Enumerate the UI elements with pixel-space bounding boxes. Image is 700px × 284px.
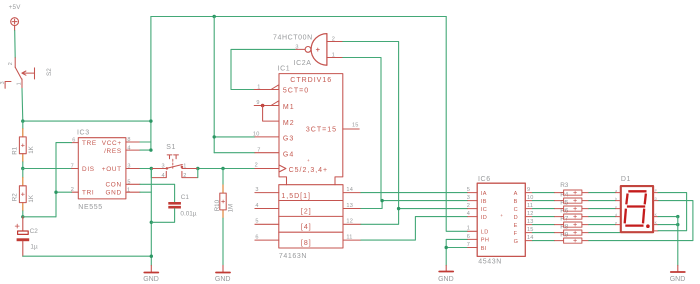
wire G3/G4 vertical bbox=[213, 17, 215, 153]
junction M1/M2 bbox=[261, 104, 265, 108]
IC1 clock triangle bbox=[279, 165, 286, 172]
svg-text:1: 1 bbox=[183, 163, 186, 169]
svg-text:7: 7 bbox=[257, 148, 260, 154]
svg-text:F: F bbox=[514, 231, 518, 237]
IC1 pin 3 bbox=[255, 192, 279, 194]
svg-text:IC3: IC3 bbox=[77, 129, 90, 136]
wire RES pin4 stub bbox=[140, 149, 151, 151]
wire C2 to GND bbox=[23, 255, 152, 257]
svg-text:a: a bbox=[615, 189, 617, 193]
IC1 pin 15 bbox=[343, 128, 359, 130]
svg-text:CON: CON bbox=[105, 182, 121, 189]
IC1 pin 14 bbox=[343, 192, 361, 194]
svg-text:1M: 1M bbox=[227, 204, 234, 213]
IC1 pin 4 bbox=[255, 208, 279, 210]
IC1 pin 6 bbox=[255, 239, 279, 241]
svg-text:1: 1 bbox=[332, 52, 335, 58]
svg-text:C: C bbox=[514, 207, 518, 213]
svg-text:IB: IB bbox=[481, 199, 487, 205]
IC1 pin 5 bbox=[255, 223, 279, 225]
junction S1 right bbox=[196, 167, 199, 170]
junction IB bbox=[380, 199, 383, 202]
svg-text:14: 14 bbox=[346, 187, 353, 193]
svg-text:7: 7 bbox=[71, 163, 74, 169]
wire S2 to node bbox=[21, 88, 24, 121]
svg-text:R2: R2 bbox=[11, 193, 18, 201]
IC1 pin 2 CLK bbox=[255, 168, 279, 170]
svg-text:S1: S1 bbox=[166, 144, 176, 151]
svg-text:G4: G4 bbox=[283, 151, 294, 158]
svg-text:4: 4 bbox=[467, 211, 470, 217]
IC1 pin 7 G4 bbox=[255, 152, 279, 154]
IC1 pin 9 M1 bbox=[254, 105, 279, 107]
svg-text:IC2A: IC2A bbox=[294, 60, 312, 67]
IC1 pin 1 bbox=[254, 89, 279, 91]
svg-text:IC6: IC6 bbox=[478, 176, 491, 183]
svg-text:IA: IA bbox=[481, 191, 487, 197]
switch S1 bbox=[151, 144, 198, 179]
resistor bodies bbox=[564, 190, 582, 243]
D1 seven segment digit bbox=[625, 191, 647, 225]
wire node to VCC vertical bbox=[23, 120, 151, 122]
svg-text:3: 3 bbox=[127, 163, 130, 169]
svg-text:+OUT: +OUT bbox=[102, 166, 122, 173]
svg-text:6: 6 bbox=[255, 234, 258, 240]
wire TRI stub bbox=[56, 191, 72, 193]
wire PH to GND bbox=[446, 239, 468, 265]
svg-text:R10: R10 bbox=[214, 199, 221, 211]
svg-text:A: A bbox=[514, 191, 518, 197]
svg-text:4: 4 bbox=[255, 203, 258, 209]
wire to G4 bbox=[214, 152, 255, 154]
svg-text:6: 6 bbox=[467, 234, 470, 240]
junction K2 bbox=[676, 223, 679, 226]
svg-text:10: 10 bbox=[253, 132, 260, 138]
wire gate output to IC1 pin1 bbox=[231, 49, 295, 89]
IC1 pin 13 bbox=[343, 208, 361, 210]
svg-text:LD: LD bbox=[481, 230, 489, 236]
junction G3 bbox=[213, 135, 216, 138]
svg-text:13: 13 bbox=[346, 203, 353, 209]
svg-text:[8]: [8] bbox=[301, 240, 312, 247]
svg-text:NE555: NE555 bbox=[78, 204, 102, 211]
svg-text:CTRDIV16: CTRDIV16 bbox=[290, 77, 332, 84]
wire display P loop bbox=[658, 193, 687, 231]
svg-text:9: 9 bbox=[256, 100, 259, 106]
svg-text:[4]: [4] bbox=[301, 224, 312, 231]
ground GND2 bbox=[215, 265, 231, 282]
junction TRI bbox=[54, 191, 57, 194]
display D1 bbox=[615, 176, 658, 232]
svg-text:GND: GND bbox=[438, 276, 454, 283]
svg-text:C2: C2 bbox=[30, 228, 39, 235]
svg-text:74HCT00N: 74HCT00N bbox=[273, 34, 313, 41]
svg-text:+: + bbox=[307, 158, 310, 163]
svg-text:BI: BI bbox=[481, 246, 487, 252]
svg-text:D1: D1 bbox=[621, 176, 631, 183]
svg-text:DIS: DIS bbox=[82, 166, 95, 173]
D1 right pins bbox=[654, 193, 658, 231]
wire C1 to GND vertical bbox=[151, 209, 174, 223]
wire CON to C1 bbox=[140, 184, 175, 202]
+5V supply symbol bbox=[9, 4, 22, 31]
resistor pins bbox=[555, 193, 589, 241]
svg-text:G: G bbox=[514, 239, 519, 245]
wire node to IC3 DIS bbox=[23, 168, 72, 170]
svg-text:5CT=0: 5CT=0 bbox=[283, 88, 309, 95]
svg-text:2: 2 bbox=[8, 62, 14, 65]
wire VCC pin8 stub bbox=[140, 141, 151, 143]
IC6 left pins bbox=[468, 193, 478, 248]
top supply rail bbox=[151, 16, 446, 18]
capacitor C1 bbox=[168, 194, 197, 217]
svg-text:3: 3 bbox=[162, 164, 165, 170]
wire Q2 to IB bbox=[361, 201, 468, 209]
svg-text:D: D bbox=[514, 215, 518, 221]
resistor R2 bbox=[11, 169, 34, 211]
nand gate U: IC2A 74HCT00N bbox=[273, 34, 343, 67]
wire gate pin1 to IB row bbox=[343, 58, 381, 201]
svg-text:VCC+: VCC+ bbox=[102, 140, 122, 147]
svg-text:IC: IC bbox=[481, 207, 487, 213]
svg-text:3: 3 bbox=[467, 195, 470, 201]
svg-text:1: 1 bbox=[467, 226, 470, 232]
svg-text:1: 1 bbox=[127, 187, 130, 193]
svg-text:15: 15 bbox=[352, 123, 359, 129]
junction IC bbox=[397, 207, 400, 210]
IC3 pin numbers bbox=[71, 137, 131, 193]
svg-text:GND: GND bbox=[143, 276, 159, 283]
svg-text:GND: GND bbox=[670, 276, 686, 283]
value marks bbox=[574, 191, 577, 242]
svg-text:e: e bbox=[615, 221, 617, 225]
svg-text:4543N: 4543N bbox=[478, 258, 502, 265]
junction top rail bbox=[213, 15, 216, 18]
svg-text:TRE: TRE bbox=[82, 140, 97, 147]
svg-text:R1: R1 bbox=[11, 146, 18, 154]
svg-text:5: 5 bbox=[467, 187, 470, 193]
svg-text:/RES: /RES bbox=[104, 148, 122, 155]
junction RES bbox=[149, 148, 152, 151]
wires resistors to display bbox=[589, 193, 620, 233]
IC1 pin 11 bbox=[343, 239, 361, 241]
wire node to TRI vertical bbox=[23, 216, 56, 218]
svg-text:R3: R3 bbox=[560, 182, 569, 189]
svg-text:PH: PH bbox=[481, 238, 489, 244]
svg-text:[2]: [2] bbox=[301, 208, 312, 215]
svg-text:1: 1 bbox=[257, 84, 260, 90]
svg-text:M1: M1 bbox=[283, 104, 295, 111]
wire +5V to S2 bbox=[14, 31, 17, 58]
capacitor C2 bbox=[15, 217, 38, 256]
D1 left pins bbox=[616, 193, 620, 225]
wire to G3 bbox=[214, 136, 255, 138]
junction OUT bbox=[150, 167, 153, 170]
junction bbox=[21, 119, 24, 122]
svg-text:1K: 1K bbox=[28, 194, 35, 202]
svg-text:11: 11 bbox=[346, 234, 352, 240]
M2 tie wire bbox=[263, 106, 279, 122]
wire 555 GND pin to vertical bbox=[140, 191, 151, 193]
svg-text:9: 9 bbox=[527, 187, 530, 193]
junction VCC node bbox=[149, 119, 152, 122]
svg-text:P: P bbox=[655, 189, 657, 193]
svg-text:6: 6 bbox=[72, 137, 75, 143]
junction R2/C2/TRI bbox=[21, 215, 24, 218]
svg-text:GND: GND bbox=[105, 190, 121, 197]
wire node to R1 bbox=[22, 121, 24, 129]
wire OUT to clock bbox=[198, 168, 255, 170]
resistor R10 bbox=[214, 169, 235, 219]
svg-text:1µ: 1µ bbox=[30, 244, 38, 251]
ground GND4 bbox=[670, 265, 686, 282]
svg-text:2: 2 bbox=[183, 173, 186, 179]
IC1 pin 10 G3 bbox=[255, 136, 279, 138]
svg-text:8: 8 bbox=[127, 137, 130, 143]
IC6 4543N decoder bbox=[467, 176, 534, 265]
svg-text:b: b bbox=[615, 197, 617, 201]
ground GND1 bbox=[143, 265, 159, 282]
svg-text:C5/2,3,4+: C5/2,3,4+ bbox=[289, 167, 329, 174]
resistor network R3 bbox=[555, 182, 589, 243]
svg-text:2: 2 bbox=[467, 203, 470, 209]
svg-text:12: 12 bbox=[346, 219, 353, 225]
IC2A pin 1 bbox=[327, 57, 343, 59]
IC2A pin 3 bbox=[295, 48, 305, 50]
junction C1 bottom bbox=[150, 221, 153, 224]
junction R10 top bbox=[221, 167, 224, 170]
svg-text:G3: G3 bbox=[283, 136, 294, 143]
svg-text:1K: 1K bbox=[28, 145, 35, 153]
svg-text:2: 2 bbox=[255, 163, 258, 169]
wire K pins to GND bbox=[658, 217, 678, 225]
IC1 pin 12 bbox=[343, 223, 361, 225]
wire BI stub bbox=[446, 247, 468, 249]
IC6 right pins bbox=[525, 193, 532, 241]
svg-text:4: 4 bbox=[127, 145, 130, 151]
svg-text:M2: M2 bbox=[283, 120, 295, 127]
svg-text:S2: S2 bbox=[46, 68, 53, 76]
IC1 74163N counter CTRDIV16 bbox=[253, 66, 361, 261]
wires 4543 outputs to resistors bbox=[532, 193, 554, 241]
IC3 NE555 bbox=[71, 129, 140, 211]
svg-text:0.01µ: 0.01µ bbox=[180, 210, 196, 217]
wire VCC vertical bbox=[150, 17, 152, 151]
svg-text:4: 4 bbox=[162, 173, 165, 179]
svg-text:B: B bbox=[514, 199, 518, 205]
wire gate pin2 to IC row bbox=[343, 42, 399, 209]
junction R1/R2/DIS bbox=[21, 167, 24, 170]
svg-text:5: 5 bbox=[127, 180, 130, 186]
wire Q1 to IA bbox=[361, 192, 468, 194]
wire segment g under display to right bbox=[589, 201, 693, 241]
wire Q3 to IC bbox=[361, 209, 468, 225]
svg-text:5: 5 bbox=[255, 219, 258, 225]
wire Q4 to ID bbox=[361, 217, 468, 241]
IC2A pin 2 bbox=[327, 41, 343, 43]
wire TRE/TRI tie bbox=[56, 143, 72, 217]
wire OUT row bbox=[140, 168, 151, 170]
svg-text:GND: GND bbox=[215, 276, 231, 283]
IC3 pins bbox=[72, 142, 141, 192]
wire rail to LD bbox=[446, 17, 468, 232]
svg-text:1,5D[1]: 1,5D[1] bbox=[281, 193, 311, 200]
wire S1/OUT down to GND bbox=[150, 169, 152, 266]
junction bottom rail bbox=[150, 255, 153, 258]
svg-text:74163N: 74163N bbox=[279, 253, 307, 260]
ground GND3 bbox=[438, 265, 454, 282]
svg-text:3: 3 bbox=[255, 187, 258, 193]
svg-text:+5V: +5V bbox=[9, 4, 22, 11]
IC1 control block outline bbox=[279, 74, 343, 185]
wire R1 to node bbox=[22, 162, 24, 169]
svg-text:IC1: IC1 bbox=[278, 66, 291, 73]
junction K1 bbox=[676, 215, 679, 218]
svg-text:3CT=15: 3CT=15 bbox=[306, 127, 337, 134]
resistor R1 bbox=[11, 129, 34, 162]
switch S2 bbox=[5, 58, 34, 89]
junction BI bbox=[445, 246, 448, 249]
svg-text:E: E bbox=[514, 223, 518, 229]
svg-text:TRI: TRI bbox=[82, 190, 94, 197]
wire R2 to node bbox=[22, 211, 24, 217]
svg-text:2: 2 bbox=[332, 36, 335, 42]
svg-text:1: 1 bbox=[17, 82, 23, 85]
IC1 register block bbox=[279, 185, 343, 248]
svg-text:3: 3 bbox=[0, 81, 6, 84]
svg-text:ID: ID bbox=[481, 215, 487, 221]
svg-text:C1: C1 bbox=[181, 194, 190, 201]
wire K vertical bbox=[677, 217, 679, 266]
svg-text:d: d bbox=[615, 213, 617, 217]
svg-text:+: + bbox=[500, 213, 503, 218]
wire R10 to GND bbox=[222, 218, 224, 265]
svg-text:7: 7 bbox=[467, 242, 470, 248]
svg-text:3: 3 bbox=[295, 44, 298, 50]
